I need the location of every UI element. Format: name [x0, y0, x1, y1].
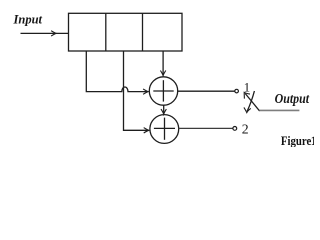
svg-text:1: 1 [311, 133, 314, 147]
wire U1 to node 1 [178, 90, 235, 92]
node 1 contact [235, 89, 239, 93]
svg-text:Output: Output [275, 91, 311, 106]
wire from cell 2 to adder U2 [124, 51, 149, 133]
adder U1 (XOR) [149, 77, 177, 105]
wire from cell 1 to adder U1 (with hop over) [86, 51, 148, 94]
svg-text:2: 2 [242, 122, 249, 137]
output wire [259, 109, 299, 111]
shift register box [69, 13, 183, 51]
svg-text:1: 1 [244, 81, 250, 95]
switch toggle arrow [244, 91, 255, 113]
cell divider 2 [142, 13, 144, 51]
svg-text:Input: Input [13, 12, 43, 26]
cell divider 1 [105, 13, 107, 51]
wire from cell 3 down to adder U1 [160, 51, 165, 76]
wire input arrow [21, 31, 69, 36]
wire from U1 down to adder U2 [161, 105, 166, 114]
node 2 contact [233, 126, 237, 130]
switch arm [244, 92, 259, 111]
wire U2 to node 2 [179, 127, 233, 129]
svg-text:Figure: Figure [281, 133, 312, 147]
adder U2 (XOR) [150, 115, 179, 144]
